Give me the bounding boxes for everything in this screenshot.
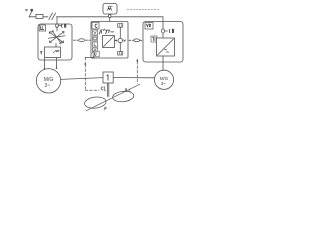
switch SW — [49, 13, 56, 20]
box: left engine unit — [38, 24, 72, 60]
dotted leader top right — [127, 9, 159, 11]
char t left — [40, 51, 42, 54]
front M/G circle — [36, 69, 60, 93]
lamp branch line — [119, 28, 121, 52]
charger label box small — [151, 36, 157, 42]
dashed link center-right — [129, 39, 143, 41]
wire square to box bottom — [162, 56, 164, 62]
rear shaft line — [113, 77, 154, 79]
branch dash right — [165, 30, 167, 32]
pin box 4 — [93, 48, 98, 53]
pin box 3 — [93, 42, 98, 47]
top label marks — [118, 24, 123, 28]
svg-text:3~: 3~ — [44, 83, 50, 89]
pin box 1 — [93, 30, 98, 35]
wire to rear M/G — [162, 62, 164, 70]
pin box 2 — [93, 36, 98, 41]
label PC — [126, 89, 131, 92]
propeller blade right — [112, 90, 134, 103]
text パワー — [99, 29, 114, 34]
connector bead — [108, 14, 111, 17]
svg-text:3~: 3~ — [161, 81, 166, 86]
tilde marks — [165, 49, 169, 52]
svg-text:M/G: M/G — [44, 77, 54, 83]
rear M/G circle — [154, 70, 173, 89]
wire: main bus — [29, 16, 163, 18]
label box C — [92, 22, 99, 29]
mode lead — [93, 57, 95, 59]
stem to gearbox — [55, 44, 57, 48]
svg-text:M/G: M/G — [160, 76, 169, 81]
bottom label marks — [118, 51, 123, 55]
hub gear box — [103, 72, 113, 83]
wire: bus drop to right box — [162, 17, 164, 22]
charger inverter square — [157, 38, 175, 56]
battery terminal label — [26, 9, 33, 12]
link symbol — [79, 39, 85, 42]
propeller blade left — [84, 96, 107, 110]
branch dash — [59, 25, 62, 27]
terminal tick — [29, 12, 31, 17]
meter glyph — [108, 6, 113, 10]
side marks — [115, 40, 117, 42]
stem meter to bus — [109, 14, 111, 21]
wire: bus drop to left box — [56, 17, 58, 25]
lamp circle — [118, 38, 122, 42]
wire into left box with bead — [56, 25, 58, 32]
inverter square PDU — [103, 36, 115, 48]
label F below hub — [105, 107, 107, 110]
fuse F — [36, 14, 43, 18]
dashed leader to mode (arrow up) — [84, 62, 86, 65]
link oval — [134, 39, 140, 42]
engine scribble — [48, 31, 65, 44]
char w right — [53, 50, 59, 52]
wires to front M/G — [45, 58, 57, 69]
propeller axis diagonal — [86, 84, 140, 111]
box: top-center meter unit — [103, 4, 117, 15]
gearbox rect — [45, 47, 61, 58]
dashed link left-center — [74, 39, 91, 41]
propeller shaft down — [107, 83, 108, 97]
label C8 left — [62, 24, 66, 27]
label near dash corner — [101, 86, 106, 90]
front shaft line — [61, 78, 103, 80]
mode box — [93, 51, 99, 57]
label C8 right — [169, 29, 173, 32]
label box right — [145, 23, 153, 29]
box: center control unit — [91, 22, 128, 59]
box: right charger unit — [143, 22, 183, 63]
label box left — [39, 25, 45, 31]
dashed leader rear (arrow up) — [136, 59, 138, 62]
wire into right box with bead — [162, 22, 164, 39]
